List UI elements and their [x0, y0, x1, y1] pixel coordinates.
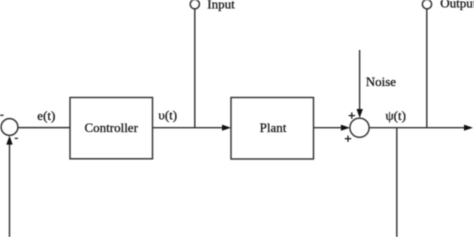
- svg-text:Plant: Plant: [260, 120, 287, 135]
- svg-text:Controller: Controller: [84, 120, 138, 135]
- svg-text:Output: Output: [440, 0, 474, 11]
- svg-text:Noise: Noise: [366, 74, 397, 89]
- svg-text:ψ(t): ψ(t): [386, 108, 406, 123]
- svg-text:e(t): e(t): [37, 108, 55, 123]
- svg-text:Input: Input: [207, 0, 235, 11]
- svg-text:υ(t): υ(t): [158, 108, 177, 123]
